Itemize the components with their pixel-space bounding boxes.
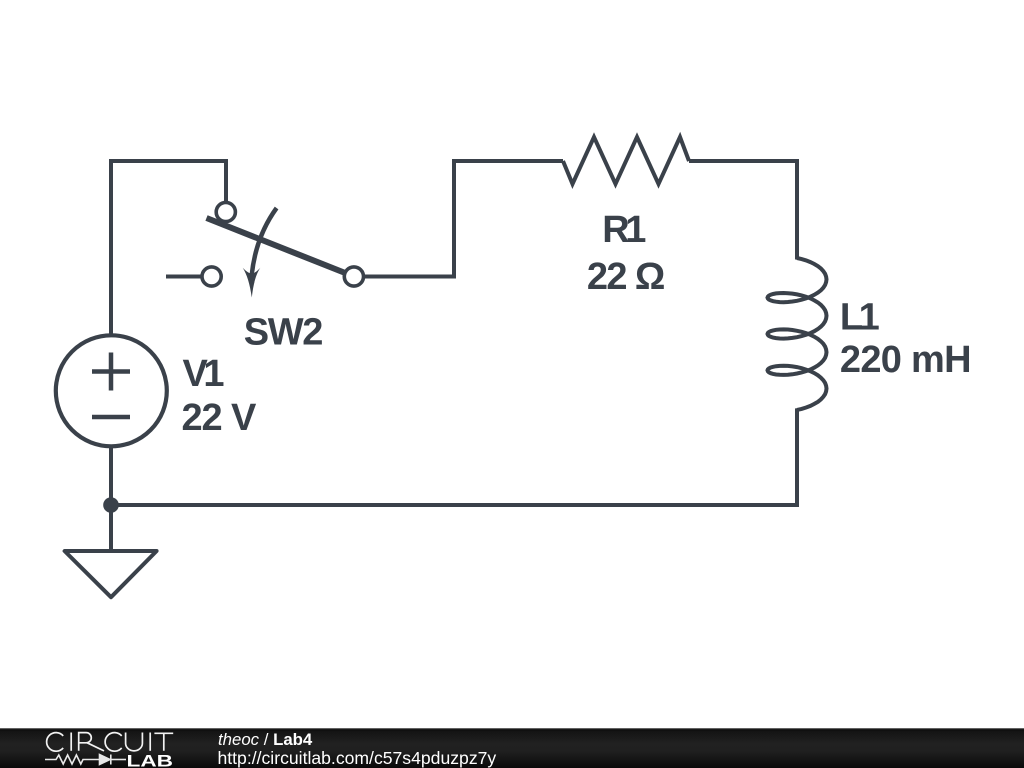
- logo letter R: [79, 733, 104, 751]
- logo letter T: [154, 733, 173, 751]
- switch blade: [207, 218, 350, 275]
- switch terminal circle top: [216, 202, 235, 221]
- wire top-left: V1 top to switch top terminal: [111, 161, 226, 336]
- V1 plus sign: [92, 353, 130, 391]
- junction node bottom-left: [103, 497, 119, 513]
- logo letter I: [70, 733, 72, 751]
- logo resistor squiggle: [45, 755, 99, 764]
- switch arrow arc: [252, 208, 277, 276]
- svg-text:R1: R1: [602, 209, 646, 251]
- svg-text:L1: L1: [840, 296, 880, 338]
- footer bar: [0, 728, 1024, 768]
- wire inductor bottom to bottom rail: [111, 408, 797, 505]
- svg-text:LAB: LAB: [127, 752, 174, 768]
- svg-text:V1: V1: [183, 353, 225, 395]
- V1 minus sign: [92, 415, 130, 420]
- logo letter I2: [149, 733, 151, 751]
- switch arrowhead: [243, 268, 261, 298]
- svg-text:22 V: 22 V: [182, 397, 258, 439]
- switch terminal circle left: [202, 267, 221, 286]
- wire switch right to resistor left: [354, 161, 563, 277]
- svg-text:220 mH: 220 mH: [840, 339, 971, 381]
- wire V1 bottom to ground: [109, 446, 113, 551]
- CircuitLab logo + footer text: [0, 727, 1024, 768]
- logo letter U: [126, 733, 143, 751]
- switch terminal circle right: [344, 267, 363, 286]
- voltage source V1 circle: [56, 335, 167, 446]
- svg-text:SW2: SW2: [244, 312, 322, 354]
- inductor L1 coil: [768, 258, 827, 410]
- wire switch left stub: [166, 275, 211, 279]
- logo letter C2: [105, 733, 122, 752]
- wire resistor right to inductor top: [689, 161, 797, 260]
- ground symbol: [65, 551, 157, 597]
- logo letter C: [47, 733, 64, 752]
- logo diode: [100, 755, 111, 765]
- svg-text:22 Ω: 22 Ω: [587, 256, 664, 298]
- svg-text:http://circuitlab.com/c57s4pdu: http://circuitlab.com/c57s4pduzpz7y: [218, 748, 497, 768]
- resistor R1 zigzag: [563, 137, 689, 184]
- svg-text:theoc / Lab4: theoc / Lab4: [218, 730, 313, 749]
